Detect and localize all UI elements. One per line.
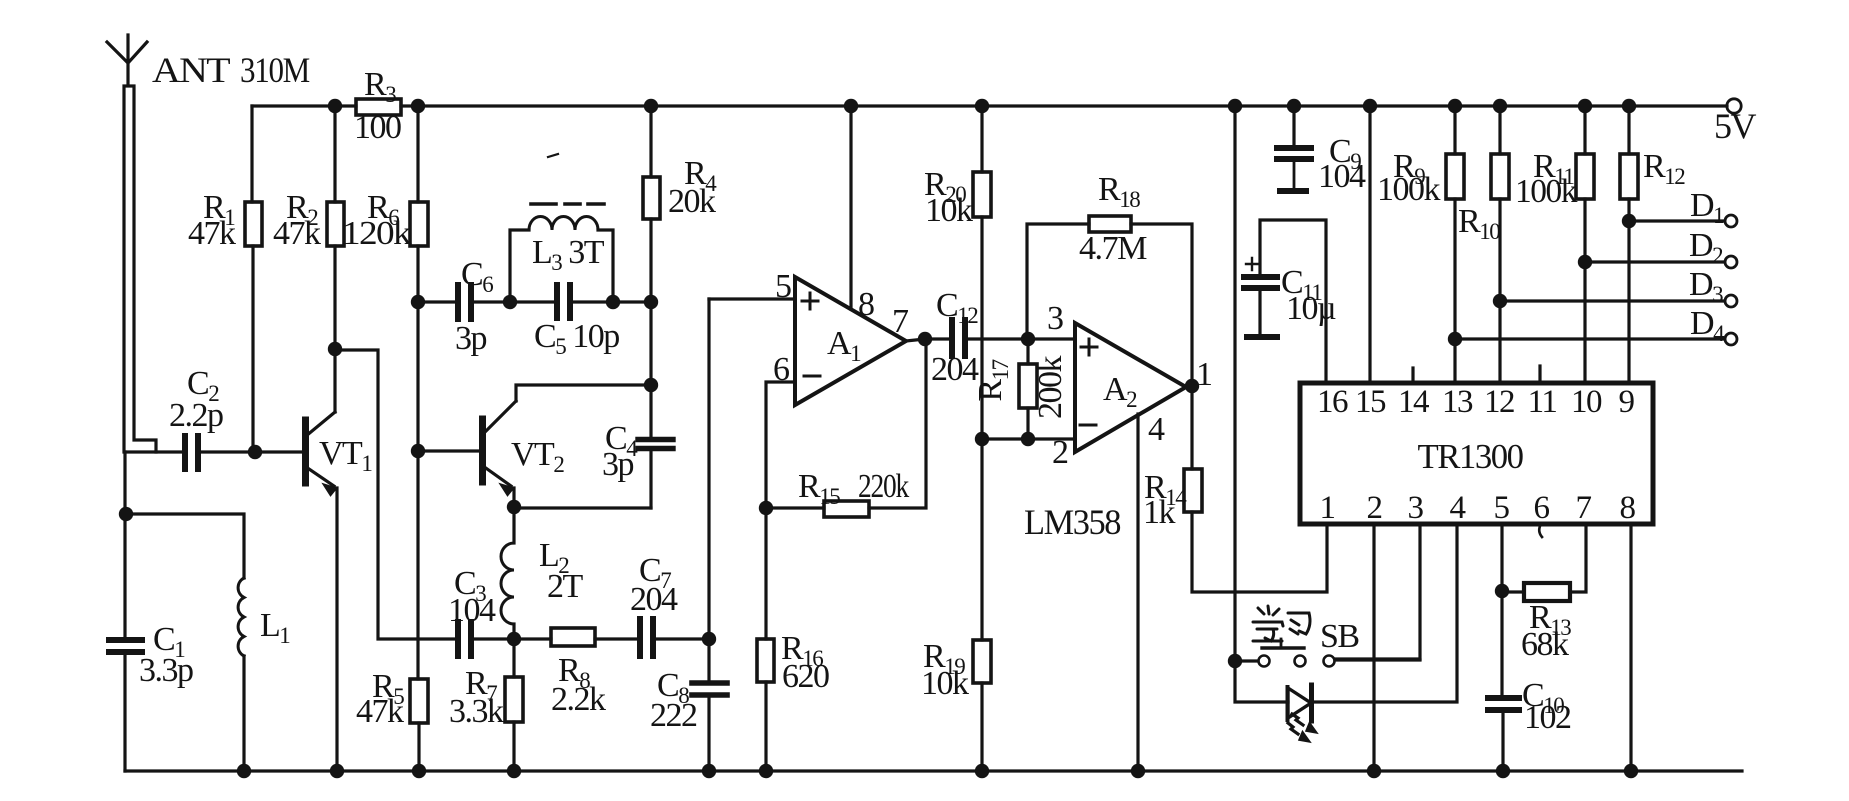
wire R13 left lead bbox=[1502, 590, 1524, 593]
wire R12 column bbox=[1627, 106, 1630, 154]
IC U1 TR1300 bbox=[1300, 383, 1653, 524]
LED VD bbox=[1288, 685, 1318, 742]
wire R14 to chip pin 1 bbox=[1192, 512, 1327, 592]
resistor R15 bbox=[824, 501, 869, 517]
wire A2 pin 4 to ground bbox=[1136, 414, 1139, 771]
wire C4 bottom to emitter line bbox=[649, 451, 652, 508]
svg-text:16: 16 bbox=[1317, 384, 1348, 420]
svg-text:LM358: LM358 bbox=[1024, 502, 1120, 542]
inductor L3 bbox=[529, 217, 598, 231]
svg-text:6: 6 bbox=[1534, 490, 1550, 526]
scan speck bbox=[548, 154, 558, 157]
node D3 tap bbox=[1493, 294, 1507, 308]
svg-text:2T: 2T bbox=[547, 568, 584, 605]
svg-text:9: 9 bbox=[1619, 384, 1635, 420]
wire C11 plus lead to chip pin 16 bbox=[1260, 220, 1326, 383]
wire R18 right leg to A2 output bbox=[1131, 224, 1192, 386]
capacitor C4 bbox=[638, 440, 673, 449]
wire R6 column bbox=[416, 106, 419, 202]
svg-text:5: 5 bbox=[1494, 490, 1510, 526]
wire output D1 bbox=[1629, 219, 1724, 222]
wire rail to chip pin 15 bbox=[1368, 106, 1371, 383]
svg-text:10k: 10k bbox=[921, 665, 969, 702]
wire tank left branch bbox=[510, 230, 529, 302]
resistor R7 bbox=[505, 677, 523, 722]
wire R10 column bbox=[1498, 106, 1501, 154]
stub chip pin 14 bbox=[1411, 368, 1414, 383]
wire R9 column bbox=[1453, 106, 1456, 154]
svg-text:2.2p: 2.2p bbox=[169, 397, 223, 434]
label xuexi (learn) chinese characters bbox=[1253, 606, 1310, 641]
wire C2 to VT1 base bbox=[202, 450, 302, 453]
wire R6 bottom through C6 node to VT2 base node bbox=[416, 246, 419, 451]
wire A1 pin5 column bbox=[707, 299, 710, 639]
wire ground rail bbox=[125, 769, 1742, 772]
svg-text:7: 7 bbox=[1576, 490, 1592, 526]
node VT2 base bbox=[411, 444, 425, 458]
wire R8 to C7 bbox=[595, 637, 637, 640]
resistor R14 bbox=[1184, 469, 1202, 512]
wire R19 to ground bbox=[980, 683, 983, 771]
op-amp A2 bbox=[1075, 323, 1186, 452]
wire node to R7 bbox=[512, 639, 515, 677]
wire R5 to ground bbox=[417, 723, 420, 771]
svg-text:1: 1 bbox=[1196, 356, 1212, 393]
pushbutton SB bbox=[1235, 639, 1420, 667]
inductor L1 bbox=[238, 578, 244, 656]
svg-text:2: 2 bbox=[1052, 434, 1068, 471]
svg-text:L3 3T: L3 3T bbox=[532, 234, 605, 275]
svg-text:ANT: ANT bbox=[152, 50, 231, 90]
svg-text:SB: SB bbox=[1320, 618, 1359, 655]
capacitor C8 bbox=[692, 683, 727, 695]
wire VT2 collector to R4/C4 node bbox=[516, 385, 651, 401]
terminal D3 bbox=[1725, 295, 1737, 307]
wire rail left drop to R1 bbox=[250, 106, 253, 202]
wire L2 to C3/R8 node bbox=[512, 624, 515, 639]
capacitor C11 bbox=[1244, 277, 1277, 288]
node A2 output bbox=[1185, 379, 1199, 393]
core dashes of L3 bbox=[531, 202, 604, 206]
wire C8 to ground bbox=[707, 698, 710, 771]
svg-text:3: 3 bbox=[1408, 490, 1424, 526]
wire C6 node to C6 bbox=[418, 300, 455, 303]
node VT2 collector bbox=[644, 378, 658, 392]
svg-text:15: 15 bbox=[1355, 384, 1386, 420]
wire A1 pin 8 to rail bbox=[849, 106, 852, 309]
node A1 output bbox=[918, 332, 932, 346]
svg-text:14: 14 bbox=[1398, 384, 1429, 420]
svg-text:10µ: 10µ bbox=[1286, 290, 1336, 327]
wire R7 to ground bbox=[512, 722, 515, 771]
resistor R16 bbox=[757, 639, 774, 682]
wire output D4 bbox=[1455, 337, 1724, 340]
capacitor C11 polarity plus bbox=[1246, 258, 1258, 270]
op-amp A1 bbox=[795, 277, 906, 405]
inductor L2 bbox=[501, 543, 514, 624]
wire R4 column bbox=[649, 106, 652, 177]
wire R2 column bbox=[333, 106, 336, 202]
wire tank right branch bbox=[598, 230, 613, 302]
svg-text:13: 13 bbox=[1442, 384, 1473, 420]
wire to A1 pin 5 bbox=[709, 297, 795, 300]
node A2 pin2 R17 bbox=[1021, 432, 1035, 446]
node C3 R8 L2 bbox=[507, 632, 521, 646]
resistor R13 bbox=[1524, 583, 1570, 601]
svg-text:100k: 100k bbox=[1377, 171, 1441, 208]
wire VT2 base bbox=[418, 449, 479, 452]
stub chip pin 11 bbox=[1538, 366, 1541, 383]
wire C10 to ground bbox=[1501, 713, 1504, 771]
svg-text:204: 204 bbox=[630, 581, 678, 618]
svg-text:222: 222 bbox=[650, 697, 697, 734]
wire chip pin 2 to ground bbox=[1372, 524, 1375, 771]
resistor R3 bbox=[356, 99, 401, 115]
capacitor C9 bbox=[1277, 148, 1311, 159]
svg-text:12: 12 bbox=[1484, 384, 1514, 420]
node D1 tap bbox=[1622, 214, 1636, 228]
wire pin5 node to C8 bbox=[707, 639, 710, 680]
wire output D3 bbox=[1500, 299, 1724, 302]
transistor VT2 bbox=[483, 401, 517, 496]
wire R1 bottom to base node bbox=[251, 246, 254, 452]
wire C5 leads bbox=[510, 300, 651, 303]
wire L1 branch bbox=[125, 514, 244, 578]
capacitor C7 bbox=[640, 619, 653, 656]
wire C3 to L2 node bbox=[474, 637, 514, 640]
junction dots ground rail bbox=[237, 764, 251, 778]
resistor R17 bbox=[1019, 364, 1037, 408]
node VT1 collector bbox=[328, 342, 342, 356]
wire SB node down to LED wire bbox=[1235, 661, 1288, 702]
wire R15 left lead bbox=[766, 506, 824, 509]
node SB tap bbox=[1228, 654, 1242, 668]
svg-text:620: 620 bbox=[782, 658, 829, 695]
resistor R4 bbox=[643, 177, 660, 219]
node R4 tank bbox=[644, 295, 658, 309]
svg-text:47k: 47k bbox=[356, 693, 404, 730]
wire output D2 bbox=[1585, 260, 1724, 263]
node tank left bbox=[503, 295, 517, 309]
capacitor C6 bbox=[458, 285, 471, 319]
terminal D4 bbox=[1725, 333, 1737, 345]
wire R16 column bbox=[764, 508, 767, 639]
wire VT1 emitter to ground bbox=[335, 488, 338, 771]
svg-text:4.7M: 4.7M bbox=[1079, 230, 1147, 267]
wire R18 left leg bbox=[1027, 224, 1089, 339]
wire antenna to C2 bbox=[125, 450, 182, 453]
resistor R8 bbox=[551, 628, 595, 646]
resistor R18 bbox=[1089, 216, 1131, 232]
capacitor C1 bbox=[109, 640, 142, 652]
svg-text:5: 5 bbox=[775, 268, 791, 305]
node L1 tap bbox=[119, 507, 133, 521]
wire A1 pin 6 to R15 node bbox=[766, 382, 795, 508]
svg-text:47k: 47k bbox=[273, 215, 321, 252]
A1 minus input sign bbox=[804, 375, 820, 378]
wire R17 bottom lead bbox=[1026, 408, 1029, 439]
wire R16 to ground bbox=[764, 682, 767, 771]
svg-text:10: 10 bbox=[1571, 384, 1602, 420]
wire C7 to pin5 column bbox=[656, 637, 709, 640]
wire R15 right lead up to A1 output bbox=[869, 339, 926, 508]
capacitor C9 bottom lead and end bar bbox=[1280, 162, 1306, 191]
svg-text:C5 10p: C5 10p bbox=[534, 318, 619, 359]
svg-text:8: 8 bbox=[1620, 490, 1636, 526]
wire R12 to D1 node to chip pin 9 bbox=[1627, 199, 1630, 383]
wire R13 right lead up to chip pin 7 bbox=[1570, 524, 1586, 592]
wire A2 pin 2 bbox=[982, 437, 1075, 440]
wire R11 to D2 node to chip pin 10 bbox=[1583, 199, 1586, 383]
wire C1 to ground bbox=[123, 655, 126, 771]
terminal D2 bbox=[1725, 256, 1737, 268]
node C6 input bbox=[411, 295, 425, 309]
terminal D1 bbox=[1725, 215, 1737, 227]
wire R20 bottom down through pin2 node to R19 bbox=[980, 217, 983, 640]
svg-text:3.3k: 3.3k bbox=[449, 693, 504, 730]
node A1 pin6 R15 R16 bbox=[759, 501, 773, 515]
wire R20 column from rail bbox=[980, 106, 983, 172]
svg-text:3p: 3p bbox=[455, 320, 487, 357]
wire R4 bottom to tank node and VT2 collector node bbox=[649, 219, 652, 437]
svg-text:1: 1 bbox=[1320, 490, 1335, 526]
resistor R10 bbox=[1491, 154, 1509, 199]
capacitor C11 bottom lead and end bar bbox=[1258, 291, 1261, 334]
wire emitter node to L2 bbox=[512, 507, 515, 543]
resistor R20 bbox=[973, 172, 991, 217]
wire top 5V rail bbox=[252, 104, 1727, 107]
svg-text:10k: 10k bbox=[925, 192, 973, 229]
resistor R5 bbox=[410, 679, 428, 723]
junction dots top rail bbox=[328, 99, 342, 113]
svg-text:104: 104 bbox=[448, 592, 496, 629]
resistor R19 bbox=[973, 640, 991, 683]
svg-text:120k: 120k bbox=[342, 215, 412, 252]
svg-text:2: 2 bbox=[1367, 490, 1382, 526]
wire R9 to D4 node to chip pin 13 bbox=[1453, 199, 1456, 383]
svg-text:3: 3 bbox=[1047, 300, 1063, 337]
svg-text:3p: 3p bbox=[602, 446, 634, 483]
wire chip pin 4 to LED bbox=[1312, 524, 1457, 702]
svg-text:8: 8 bbox=[858, 286, 874, 323]
svg-text:2.2k: 2.2k bbox=[551, 681, 606, 718]
transistor VT1 bbox=[306, 412, 338, 496]
capacitor C9 top lead bbox=[1292, 106, 1295, 145]
wire VT2 base node down to R5 bbox=[416, 451, 419, 679]
wire chip pin 5 to R13 node bbox=[1500, 524, 1503, 591]
A1 plus input sign bbox=[802, 293, 818, 309]
wire R17 top lead bbox=[1026, 339, 1029, 364]
capacitor C3 bbox=[458, 622, 471, 656]
node D2 tap bbox=[1578, 255, 1592, 269]
wire R11 column bbox=[1583, 106, 1586, 154]
capacitor C5 bbox=[557, 285, 570, 318]
node A2 pin3 R17 R18 bbox=[1021, 332, 1035, 346]
svg-text:104: 104 bbox=[1318, 158, 1366, 195]
node tank right bbox=[606, 295, 620, 309]
wire L1 to ground bbox=[242, 656, 245, 771]
svg-text:6: 6 bbox=[773, 351, 789, 388]
svg-text:11: 11 bbox=[1528, 384, 1557, 420]
node A2 pin2 left bbox=[975, 432, 989, 446]
svg-text:68k: 68k bbox=[1521, 626, 1569, 663]
svg-text:TR1300: TR1300 bbox=[1418, 437, 1524, 476]
svg-text:4: 4 bbox=[1148, 411, 1165, 448]
wire A2 output to R14 bbox=[1186, 386, 1192, 469]
wire node to R8 bbox=[514, 637, 551, 640]
resistor R11 bbox=[1576, 154, 1594, 199]
capacitor C12 bbox=[952, 320, 965, 356]
svg-text:47k: 47k bbox=[188, 215, 236, 252]
wire R2 bottom to VT1 collector bbox=[333, 246, 336, 412]
wire SB column from rail bbox=[1233, 106, 1236, 661]
wire VT2 emitter node bbox=[514, 488, 651, 508]
wire R10 to D3 node to chip pin 12 bbox=[1498, 199, 1501, 383]
wire chip pin 3 to SB bbox=[1335, 524, 1420, 659]
resistor R6 bbox=[410, 202, 428, 246]
svg-text:220k: 220k bbox=[858, 468, 909, 505]
resistor R9 bbox=[1446, 154, 1464, 199]
resistor R1 bbox=[245, 202, 262, 246]
wire A1 output to C12 bbox=[906, 339, 949, 341]
wire C6 to tank bbox=[474, 300, 510, 303]
svg-text:100k: 100k bbox=[1515, 173, 1577, 210]
wire chip pin 8 to ground bbox=[1629, 524, 1632, 771]
stub chip pin 6 bbox=[1539, 524, 1542, 537]
node A1 pin5 C7 C8 bbox=[702, 632, 716, 646]
svg-text:3.3p: 3.3p bbox=[139, 652, 193, 689]
antenna ANT bbox=[107, 35, 156, 452]
svg-text:7: 7 bbox=[892, 303, 909, 340]
svg-text:310M: 310M bbox=[240, 50, 309, 90]
svg-text:100: 100 bbox=[354, 109, 401, 146]
svg-text:5V: 5V bbox=[1714, 106, 1757, 146]
A2 minus input sign bbox=[1080, 424, 1096, 427]
node VT1 base bbox=[248, 445, 262, 459]
node D4 tap bbox=[1448, 332, 1462, 346]
wire antenna column down bbox=[123, 452, 126, 636]
node R13 C10 pin5 bbox=[1495, 584, 1509, 598]
svg-text:102: 102 bbox=[1524, 699, 1571, 736]
svg-text:1k: 1k bbox=[1143, 494, 1176, 531]
resistor R12 bbox=[1620, 154, 1638, 199]
wire VT1 collector node to C3 line bbox=[335, 350, 455, 639]
svg-text:200k: 200k bbox=[1032, 356, 1069, 420]
svg-text:20k: 20k bbox=[668, 183, 716, 220]
terminal 5V bbox=[1727, 99, 1741, 113]
capacitor C2 bbox=[185, 436, 198, 469]
resistor R2 bbox=[327, 202, 344, 246]
A2 plus input sign bbox=[1081, 339, 1097, 355]
wire C12 to A2 pin 3 bbox=[968, 337, 1075, 340]
svg-text:4: 4 bbox=[1450, 490, 1466, 526]
node VT2 emitter bbox=[507, 500, 521, 514]
wire R13 node down to C10 bbox=[1500, 591, 1503, 695]
capacitor C10 bbox=[1488, 698, 1519, 710]
